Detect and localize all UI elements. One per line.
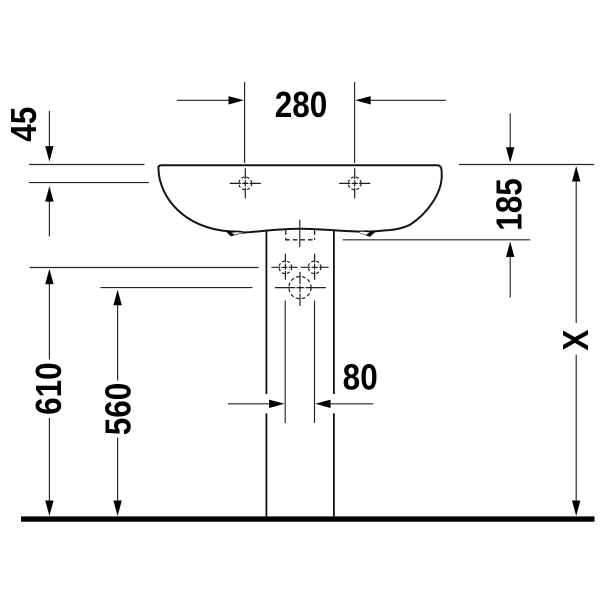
svg-text:80: 80 bbox=[343, 358, 378, 398]
svg-text:185: 185 bbox=[490, 178, 530, 231]
svg-text:610: 610 bbox=[29, 362, 69, 415]
svg-text:X: X bbox=[556, 329, 596, 350]
svg-text:280: 280 bbox=[275, 85, 328, 125]
svg-text:560: 560 bbox=[99, 383, 139, 436]
svg-text:45: 45 bbox=[4, 107, 44, 142]
